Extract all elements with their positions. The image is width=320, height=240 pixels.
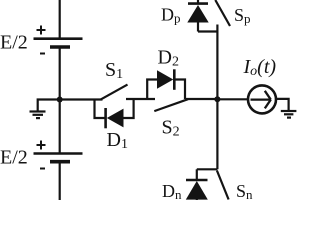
node junction dot left [57, 97, 63, 103]
svg-text:Sn: Sn [236, 181, 253, 200]
switch S1 blade [101, 85, 128, 100]
diode D2 (anti-parallel, cathode right) [147, 69, 185, 100]
wire top-left vertical from top edge to battery E/2 top [59, 0, 61, 39]
battery top plus label [37, 26, 46, 35]
wire right vertical upper (Sp fixed post down to node) [216, 25, 218, 100]
wire center node down to bottom battery [59, 100, 61, 154]
battery top minus label [40, 53, 45, 55]
diode D1 (anti-parallel, cathode left) [95, 98, 134, 128]
wire node to ground left [38, 100, 60, 111]
svg-text:Dn: Dn [162, 181, 182, 200]
wire Dp jog to right vertical [198, 30, 217, 32]
svg-text:D1: D1 [107, 129, 128, 152]
wire between top battery and center node [59, 47, 61, 100]
wire node to switch S1 [60, 98, 103, 100]
wire middle bar between S1 and S2 [126, 98, 155, 100]
battery E/2 top [34, 39, 83, 47]
node junction dot right [214, 96, 220, 102]
svg-text:Dp: Dp [161, 5, 181, 26]
diode Dp (top right, cathode up) [187, 0, 208, 32]
ground left [30, 112, 46, 119]
svg-text:Sp: Sp [234, 5, 251, 26]
wire bottom battery to bottom edge [59, 162, 61, 200]
svg-text:S2: S2 [162, 117, 180, 140]
current source arrow [251, 91, 271, 109]
wire current source to ground right [276, 99, 289, 110]
svg-text:E/2: E/2 [0, 32, 28, 54]
svg-text:D2: D2 [158, 47, 179, 70]
diode Dn (bottom right, cathode up) [186, 169, 208, 200]
switch S2 blade [154, 99, 188, 111]
svg-text:S1: S1 [105, 59, 123, 82]
wire S2 right bar to main right vertical [185, 98, 217, 100]
svg-text:Io(t): Io(t) [243, 56, 277, 79]
ground right [281, 111, 297, 118]
battery E/2 bottom [34, 154, 83, 162]
switch Sp blade [215, 0, 230, 26]
wire Sn jog [197, 168, 218, 170]
wire right vertical lower (node down to Sn cell) [216, 100, 218, 170]
switch Sn blade [217, 171, 229, 200]
current source Io(t) circle [248, 85, 276, 113]
battery bottom minus label [40, 168, 45, 170]
battery bottom plus label [37, 141, 46, 150]
wire node to current source [217, 98, 247, 100]
svg-text:E/2: E/2 [0, 147, 28, 169]
